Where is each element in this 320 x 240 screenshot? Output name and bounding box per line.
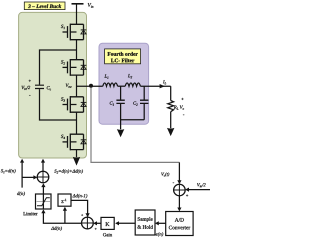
wire L2 to load	[140, 85, 170, 87]
label RL	[174, 106, 179, 110]
sum junction comparator	[174, 184, 186, 196]
wire S4 to ground	[76, 150, 78, 158]
wire Z to lower sum	[71, 200, 88, 213]
transistor S3	[63, 96, 87, 113]
wire Vsw to filter	[77, 85, 103, 87]
sum junction upper	[37, 171, 49, 183]
label Gain	[103, 233, 112, 236]
current arrow IL	[160, 84, 165, 88]
purple filter block	[99, 43, 149, 124]
wire sample-hold to K	[119, 222, 135, 224]
wire load corner	[170, 86, 172, 100]
wire sum upper to buck	[42, 162, 44, 171]
label S3	[61, 97, 65, 101]
label Limiter	[23, 212, 37, 215]
LC filter label	[105, 49, 141, 64]
label Cc	[47, 86, 51, 90]
sum junction lower	[82, 217, 94, 229]
inductor L1	[103, 83, 118, 86]
wire L1 to L2	[118, 85, 126, 87]
wire K to sum	[97, 222, 101, 224]
label 3-level buck	[28, 4, 61, 8]
wire Vin to S1	[76, 4, 78, 25]
transistor S4	[63, 134, 87, 151]
label A/D	[175, 218, 184, 222]
resistor RL	[168, 101, 174, 112]
label Vin/2 flying	[22, 86, 31, 90]
label Cc minus	[29, 94, 30, 96]
label comparator plus	[186, 194, 188, 196]
Z^-1 box	[58, 194, 71, 206]
transistor S1	[63, 24, 87, 41]
label comparator minus	[173, 182, 174, 184]
label e(n)	[156, 232, 163, 236]
capacitor C2	[143, 86, 145, 100]
label Vo plus	[181, 98, 183, 100]
Vin supply bar	[72, 3, 84, 5]
label K	[105, 222, 109, 226]
label L1	[104, 75, 108, 79]
label delta d(n)	[51, 226, 62, 230]
wire S2 to S3	[76, 75, 78, 97]
wire RL to ground	[170, 112, 172, 129]
wire Vref into comparator	[189, 189, 210, 191]
label S1 duty	[1, 169, 16, 173]
ground arrow (buck)	[73, 157, 80, 166]
label Converter	[169, 226, 190, 230]
gain K box	[101, 217, 114, 229]
wire capacitor return rail	[121, 119, 145, 121]
label S1	[61, 25, 65, 29]
label Vin/2 ref	[197, 183, 206, 187]
3-level buck block	[19, 12, 87, 158]
limiter box	[36, 194, 52, 209]
transistor S2	[63, 59, 87, 76]
label & Hold	[137, 225, 152, 229]
label fourth order	[107, 52, 137, 56]
inductor L2	[125, 83, 140, 86]
label z-1	[61, 199, 66, 203]
wire S1 to S2	[76, 40, 78, 60]
wire A/D to sample-hold	[159, 222, 166, 224]
label Vo minus	[183, 114, 184, 116]
wire delta-d bus	[43, 210, 81, 223]
sample and hold box	[135, 210, 155, 235]
wire comparator to A/D	[178, 196, 180, 208]
label sum2 plus right	[95, 228, 97, 230]
ground arrow (load)	[167, 128, 174, 136]
label S4	[61, 135, 65, 139]
label Cc plus	[29, 80, 31, 82]
wire S3 to S4	[76, 112, 78, 134]
wire limiter to sum upper	[42, 187, 44, 194]
label L2	[128, 74, 132, 78]
3-level buck label	[24, 2, 65, 10]
label S2	[61, 60, 65, 64]
A/D converter box	[166, 212, 193, 236]
label d(n)	[17, 192, 25, 196]
capacitor Cc	[35, 85, 44, 88]
label Sample	[138, 217, 153, 222]
label Vo	[180, 106, 184, 110]
label Vsw	[66, 84, 72, 88]
label S2 duty	[54, 169, 83, 173]
label C2	[133, 101, 137, 105]
ground arrow (filter)	[117, 129, 124, 137]
feedback wire (grey)	[91, 88, 179, 163]
label C1	[110, 101, 114, 105]
label sum2 plus top	[81, 214, 83, 216]
label Vin	[88, 3, 94, 8]
wire feedback down to comparator	[178, 162, 180, 181]
capacitor C1	[120, 86, 122, 100]
flying capacitor loop wire	[40, 50, 77, 120]
label delta d(n-1)	[72, 194, 87, 198]
label IL	[163, 80, 166, 84]
label Vc(t)	[161, 172, 169, 176]
wire d(n)	[22, 162, 33, 188]
node Vsw junction dot	[89, 84, 93, 88]
label lc filter	[111, 58, 134, 62]
